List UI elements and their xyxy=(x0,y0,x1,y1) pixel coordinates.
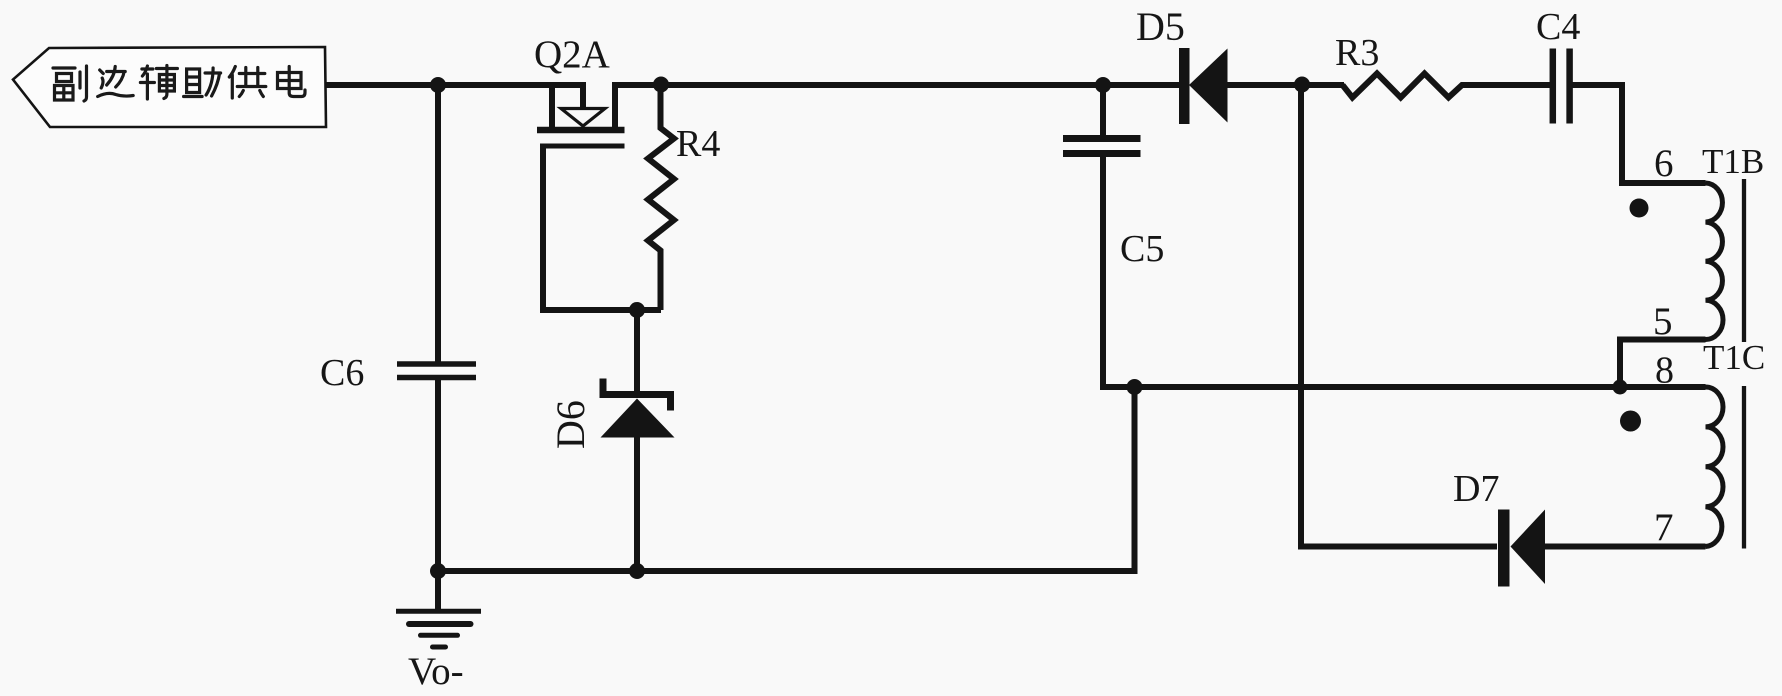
wire C4 to T1B pin6 xyxy=(1572,85,1706,183)
transistor Q2A body stub xyxy=(580,85,586,109)
svg-text:R3: R3 xyxy=(1335,32,1379,74)
junction at C5 bottom rail xyxy=(1127,379,1143,395)
svg-text:8: 8 xyxy=(1655,350,1674,392)
svg-text:C5: C5 xyxy=(1120,228,1164,270)
wire T1B pin5 down to rail xyxy=(1620,340,1706,388)
transistor Q2A gate bar xyxy=(540,144,625,149)
svg-text:C4: C4 xyxy=(1536,6,1580,48)
phase dot T1B xyxy=(1630,199,1649,218)
junction ground rail at D6 xyxy=(629,563,645,579)
diode D6 zener top lead xyxy=(634,310,640,394)
svg-text:T1B: T1B xyxy=(1702,142,1764,181)
capacitor C6 plates xyxy=(397,361,476,367)
inductor T1B winding xyxy=(1706,183,1724,340)
svg-text:T1C: T1C xyxy=(1703,338,1765,377)
wire D7 to T1C pin7 xyxy=(1545,544,1706,550)
junction at C6 tap xyxy=(430,77,446,93)
phase dot T1C xyxy=(1620,411,1641,432)
wire D5 to R3 xyxy=(1227,82,1344,88)
wire top segment flag to Q2A xyxy=(326,82,586,88)
junction ground rail at C6 xyxy=(430,563,446,579)
wire D5 node down to D7 xyxy=(1301,85,1497,547)
resistor R3 xyxy=(1343,74,1551,98)
diode D7 bar xyxy=(1498,510,1510,587)
junction at node after D5 xyxy=(1294,77,1310,93)
capacitor C5 bottom lead and mid rail xyxy=(1103,157,1706,387)
svg-text:R4: R4 xyxy=(676,123,720,165)
junction at D6 top xyxy=(629,302,645,318)
svg-text:6: 6 xyxy=(1654,142,1674,185)
capacitor C5 plates xyxy=(1063,135,1141,142)
inductor T1C winding xyxy=(1706,387,1724,547)
junction at R4 top xyxy=(653,77,669,93)
capacitor C6 top lead xyxy=(435,85,441,362)
junction at C5 top xyxy=(1095,77,1111,93)
diode D7 triangle xyxy=(1511,510,1546,585)
svg-text:C6: C6 xyxy=(320,352,364,394)
transformer core line xyxy=(1742,179,1746,342)
capacitor C6 bottom lead xyxy=(435,380,441,571)
node 副边辅助供电 flag outline xyxy=(13,47,326,127)
transistor Q2A channel bar xyxy=(537,127,625,134)
diode D6 bottom lead xyxy=(634,437,640,571)
svg-text:D7: D7 xyxy=(1453,468,1499,510)
svg-text:Vo-: Vo- xyxy=(408,650,464,693)
diode D6 zener bar xyxy=(603,379,671,411)
resistor R4 xyxy=(648,85,674,311)
transistor Q2A left lead xyxy=(549,85,555,128)
diode D6 triangle xyxy=(601,399,675,438)
wire bottom ground rail xyxy=(438,387,1135,571)
diode D5 triangle xyxy=(1189,49,1228,123)
svg-text:D5: D5 xyxy=(1136,4,1185,49)
capacitor C4 plates xyxy=(1550,49,1557,124)
junction at T1C pin8 xyxy=(1613,380,1628,395)
svg-text:Q2A: Q2A xyxy=(534,33,610,76)
wire Q2A gate down xyxy=(543,146,661,310)
ground symbol xyxy=(396,571,481,647)
capacitor C5 top lead xyxy=(1100,85,1106,135)
transistor Q2A right lead xyxy=(612,85,618,128)
flag text 副边辅助供电 (hand drawn strokes) xyxy=(53,66,305,102)
svg-text:5: 5 xyxy=(1653,300,1673,343)
diode D5 bar xyxy=(1179,48,1190,124)
svg-text:7: 7 xyxy=(1654,506,1674,549)
transistor Q2A arrow xyxy=(561,109,605,127)
wire top segment Q2A to D5 xyxy=(612,82,1180,88)
svg-text:D6: D6 xyxy=(548,400,593,449)
